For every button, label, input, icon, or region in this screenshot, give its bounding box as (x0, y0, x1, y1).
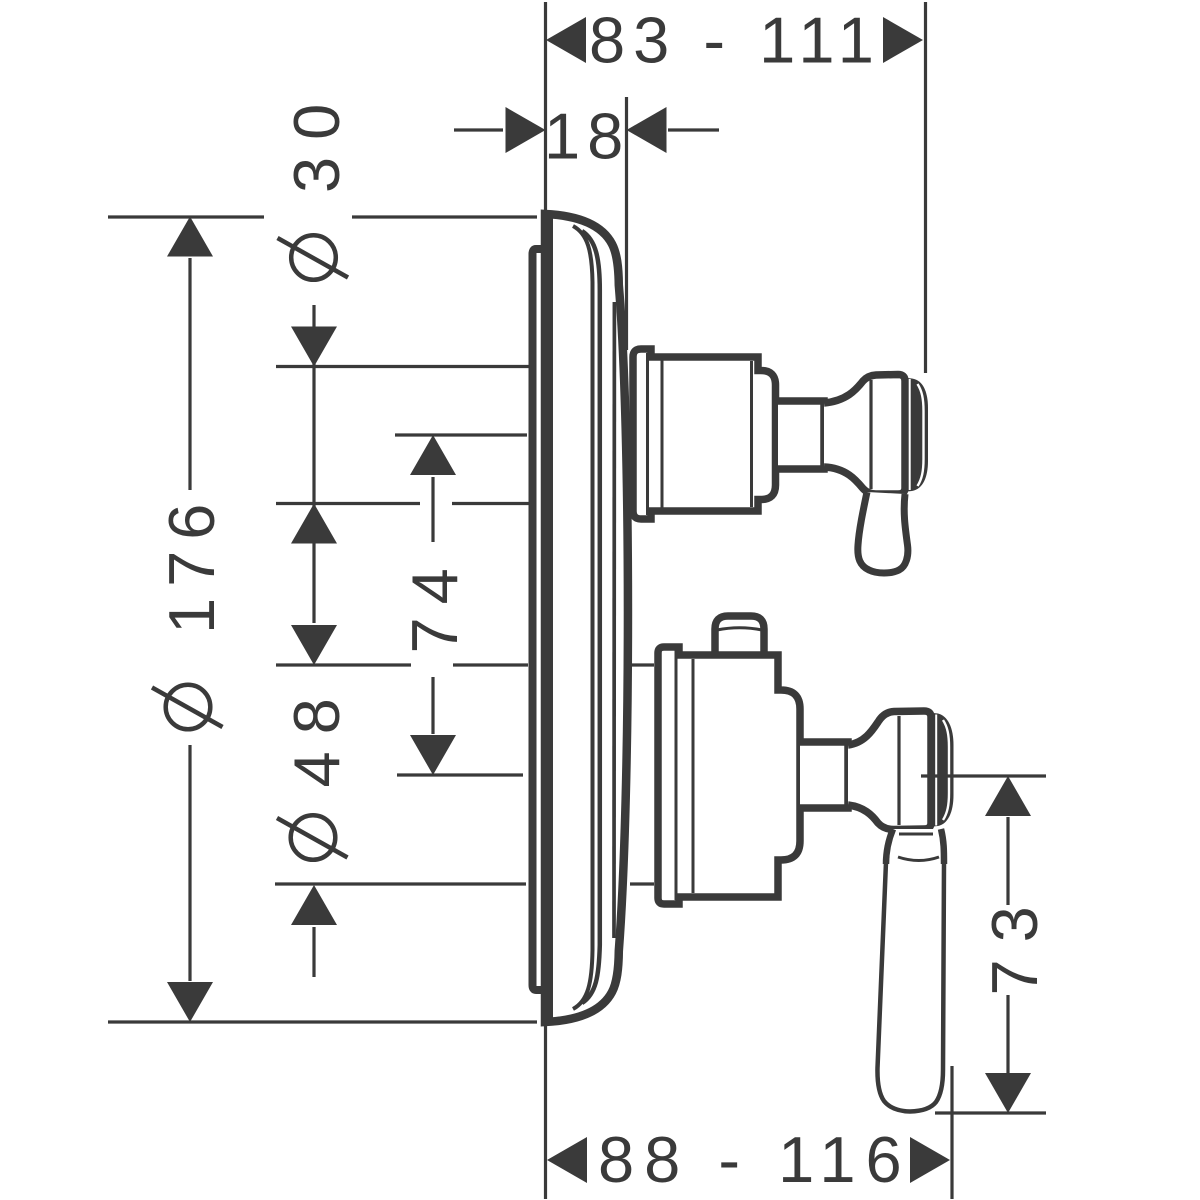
svg-text:30: 30 (280, 87, 353, 193)
svg-text:48: 48 (280, 681, 353, 787)
svg-text:18: 18 (544, 100, 630, 173)
svg-text:73: 73 (978, 889, 1051, 995)
svg-text:88 - 116: 88 - 116 (598, 1123, 912, 1196)
svg-text:176: 176 (155, 493, 228, 634)
svg-text:83 - 111: 83 - 111 (589, 4, 882, 77)
svg-text:74: 74 (398, 555, 471, 653)
